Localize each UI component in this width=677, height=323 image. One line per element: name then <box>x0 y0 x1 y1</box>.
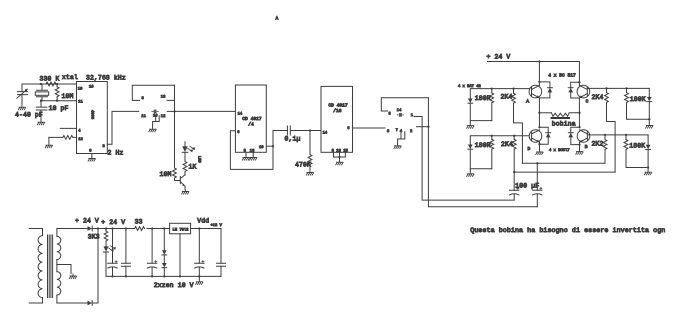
wire: gate2 pin5 loop to right vertical <box>381 98 428 111</box>
svg-text:+ 24 V: + 24 V <box>487 53 511 60</box>
svg-text:2K4: 2K4 <box>592 94 604 101</box>
wire: B emitter to ground <box>579 142 581 149</box>
wire: 24V rail to regulator <box>98 228 170 230</box>
svg-text:33: 33 <box>135 218 143 225</box>
capacitor film (Vdd) <box>217 229 226 277</box>
wire: IC2 pin8 stub to ground <box>245 152 247 155</box>
pin 4 stub (reset) <box>60 127 76 129</box>
resistor 10M (driver base) <box>173 168 181 181</box>
wire: gate2 pin2 stub <box>417 126 429 128</box>
resistor 3K3 <box>104 229 108 242</box>
svg-text:CD 4017: CD 4017 <box>242 116 262 122</box>
svg-text:10: 10 <box>259 146 264 150</box>
svg-text:2: 2 <box>410 130 413 134</box>
node B collector/diode <box>578 126 580 128</box>
ground (470K) <box>306 170 313 175</box>
wire: diode to +24V node <box>92 228 98 230</box>
svg-text:C: C <box>586 98 589 104</box>
node A base/2K4 <box>512 87 514 89</box>
node pin2 junction <box>427 126 429 128</box>
wire: gate1 gnd bracket <box>153 116 160 127</box>
node +24V <box>97 227 99 229</box>
node Vdd cap top <box>198 227 200 229</box>
svg-text:32,768 kHz: 32,768 kHz <box>86 74 126 81</box>
resistor 2K4 (D row series) <box>512 136 516 190</box>
ground (psu 0V) <box>196 280 203 285</box>
wire: A emitter to coil node <box>538 98 540 127</box>
wire: oscillator top rail to IC1 pin10 <box>22 83 77 85</box>
svg-text:16: 16 <box>89 86 94 90</box>
svg-text:4060: 4060 <box>89 110 93 120</box>
wire: D emitter to ground <box>539 142 541 149</box>
wire: bottom diode up to +24V node <box>92 229 98 304</box>
wire: IC2 pin6 feedback from pin10 <box>230 131 273 170</box>
svg-text:6: 6 <box>237 131 240 135</box>
ground (A-row) <box>467 123 474 128</box>
node B emitter/diode <box>578 143 580 145</box>
resistor 470K <box>308 131 312 171</box>
node rail/A collector <box>538 60 540 62</box>
svg-text:2K4: 2K4 <box>501 93 513 100</box>
node: 10M top junction <box>56 83 58 85</box>
svg-text:10: 10 <box>78 87 83 91</box>
node coil left <box>538 112 540 114</box>
node D emitter/diode <box>538 143 540 145</box>
node cap3 top <box>151 227 153 229</box>
svg-text:4-40 pF: 4-40 pF <box>15 112 43 119</box>
svg-text:13: 13 <box>161 96 166 100</box>
capacitor 100uF (cap1) <box>510 187 519 200</box>
ground (center tap) <box>69 274 76 279</box>
svg-text:Vdd: Vdd <box>197 218 209 225</box>
ground (B emitter) <box>576 149 583 154</box>
diode (flyback A) <box>539 82 552 98</box>
node D base/2K4 <box>513 135 515 137</box>
node cap1 top <box>111 227 113 229</box>
transformer secondary bottom winding <box>56 265 58 272</box>
svg-text:A: A <box>526 98 529 104</box>
svg-text:180K: 180K <box>629 143 645 150</box>
node C collector/diode <box>578 81 580 83</box>
node: 10M bottom <box>56 100 58 102</box>
resistor 180R (A row) <box>490 89 494 121</box>
svg-text:13: 13 <box>336 150 341 154</box>
transistor A <box>529 85 542 98</box>
svg-text:1: 1 <box>411 114 414 118</box>
svg-text:3K3: 3K3 <box>88 234 100 241</box>
resistor 180K (B row) <box>624 135 648 168</box>
node bracket junction <box>338 156 340 158</box>
capacitor 100uF (cap2) <box>533 163 542 207</box>
node D base/180R <box>491 135 493 137</box>
node cap output junction <box>309 129 311 131</box>
ground (IC2 pin13) <box>250 155 257 160</box>
resistor 10M (crystal parallel) <box>55 84 59 101</box>
wire: secondary bottom to diode <box>57 302 88 304</box>
node: crystal top junction <box>40 83 42 85</box>
svg-text:5: 5 <box>389 113 392 117</box>
wire: D base <box>471 135 529 137</box>
svg-text:11: 11 <box>141 115 146 119</box>
svg-text:7: 7 <box>396 129 398 133</box>
svg-text:B: B <box>585 144 588 150</box>
capacitor film (24V #2) <box>121 229 130 277</box>
transformer T1 <box>29 229 61 304</box>
svg-text:3: 3 <box>103 145 106 149</box>
transistor Q1 <box>180 175 185 190</box>
wire: +24V rail <box>488 62 580 86</box>
capacitor elec (Vdd) <box>195 229 204 277</box>
svg-text:2xzen 10 V: 2xzen 10 V <box>154 282 194 289</box>
svg-text:14: 14 <box>323 131 328 135</box>
svg-text:180K: 180K <box>630 96 646 103</box>
svg-text:10M: 10M <box>62 93 74 100</box>
wire: regulator output rail <box>191 228 221 230</box>
svg-text:2K4: 2K4 <box>501 141 513 148</box>
svg-text:2 Hz: 2 Hz <box>108 149 124 156</box>
trimmer capacitor CV 4-40 pF <box>17 84 28 105</box>
diode rectifier bottom <box>88 301 93 306</box>
svg-text:/4: /4 <box>248 121 254 127</box>
svg-text:CD 4017: CD 4017 <box>328 103 348 109</box>
svg-text:xtal: xtal <box>62 74 78 81</box>
node pin10 junction <box>272 145 274 147</box>
svg-text:LM 78l2: LM 78l2 <box>173 227 190 232</box>
svg-text:/16: /16 <box>333 108 342 114</box>
zener diodes 2x 10V <box>162 229 167 277</box>
wire: IC1 pin8 to ground <box>91 154 93 157</box>
diode BAT42 (B row) <box>646 135 651 170</box>
svg-text:3: 3 <box>387 130 390 134</box>
node cap1 top tap <box>513 171 515 173</box>
svg-text:+ 24 V: + 24 V <box>75 218 99 225</box>
resistor 2K4 (C row series) <box>605 88 616 172</box>
resistor 33 (series) <box>135 227 145 231</box>
transformer primary winding <box>29 229 42 236</box>
wire: IC3 pin6 to gate2 pin3 <box>353 127 386 129</box>
transformer secondary top winding <box>56 229 58 237</box>
svg-text:12: 12 <box>78 138 83 142</box>
node B-row diode/180K <box>647 166 649 168</box>
wire: bottom rail ground stub <box>198 276 200 279</box>
ground (gate2) <box>394 144 401 149</box>
node A collector/diode <box>538 81 540 83</box>
node gate1 output junction <box>173 110 175 112</box>
wire: B base <box>588 134 648 136</box>
wire: A-row diode node to 180R <box>470 121 492 124</box>
ground (IC1 pin 8) <box>88 156 95 161</box>
op IC1 4060 body <box>77 82 108 154</box>
resistor on pin 12 <box>49 136 77 140</box>
LED power indicator <box>103 241 115 276</box>
svg-text:4 x BAT 42: 4 x BAT 42 <box>458 85 482 89</box>
wire: gate2 gnd bracket <box>398 132 405 144</box>
wire: crystal bottom rail to IC1 pin11 <box>41 100 77 102</box>
svg-text:+12 V: +12 V <box>211 224 223 228</box>
node cap2 top <box>125 227 127 229</box>
wire: C base <box>588 87 650 89</box>
op IC3 CD4017 /16 body <box>321 86 353 152</box>
wire: IC2 pin10 stub <box>266 145 273 147</box>
diode (flyback B) <box>568 127 579 144</box>
crystal XTAL 32,768 kHz <box>35 84 48 101</box>
inductor bobina <box>551 113 580 119</box>
svg-text:14: 14 <box>397 109 402 113</box>
ground (IC3) <box>336 160 343 165</box>
svg-text:0,1µ: 0,1µ <box>285 136 301 143</box>
svg-text:A: A <box>276 16 279 22</box>
transformer core <box>48 235 53 298</box>
diode BAT42 (D row) <box>468 136 473 169</box>
svg-text:Questa bobina ha bisogno di es: Questa bobina ha bisogno di essere inver… <box>470 227 665 235</box>
ground (pin 12 network) <box>45 143 52 148</box>
svg-text:12: 12 <box>161 115 166 119</box>
svg-text:4 x BC 517: 4 x BC 517 <box>548 72 576 78</box>
svg-text:bobina: bobina <box>552 121 576 128</box>
transistor D <box>529 130 542 143</box>
transistor B <box>577 130 590 143</box>
node bottom rail joints <box>111 275 113 277</box>
svg-text:4 x BC5l7: 4 x BC5l7 <box>549 148 570 153</box>
svg-text:6: 6 <box>347 127 350 131</box>
svg-text:180R: 180R <box>475 142 491 149</box>
diode rectifier top <box>88 226 93 231</box>
wire: A base <box>471 88 529 90</box>
resistor 180K (C row) <box>625 88 650 119</box>
svg-text:15: 15 <box>343 150 348 154</box>
wire: gate1 pin8 to pin13 loop <box>132 85 174 100</box>
svg-text:10 pF: 10 pF <box>49 105 69 112</box>
node 3K3 top <box>105 227 107 229</box>
resistor 2K2 (B row series) <box>603 135 607 163</box>
diode BAT42 (C row) <box>647 88 652 123</box>
svg-text:470K: 470K <box>295 161 311 168</box>
svg-text:LED: LED <box>196 156 200 164</box>
ground (gate1) <box>149 127 156 132</box>
diode BAT42 (A row) <box>468 89 473 121</box>
wire: gate1 right vertical down <box>174 85 176 168</box>
svg-text:D: D <box>528 146 531 152</box>
svg-text:+ 24 V: + 24 V <box>101 219 125 226</box>
svg-text:330 K: 330 K <box>40 76 60 83</box>
capacitor 0,1u <box>287 126 310 135</box>
wire: IC3 ground bracket <box>334 152 346 160</box>
wire: IC2 pin13 stub to ground <box>252 152 254 155</box>
svg-text:180R: 180R <box>475 95 491 102</box>
node A base/180R <box>491 87 493 89</box>
svg-text:2K2: 2K2 <box>592 140 604 147</box>
wire: C emitter down <box>578 98 580 127</box>
node C base/2K4 <box>605 87 607 89</box>
op regulator LM78l2 <box>170 223 191 234</box>
svg-text:100 µF: 100 µF <box>515 182 539 189</box>
wire: D-row diode node <box>470 169 492 172</box>
ground (C-row) <box>646 123 653 128</box>
op-amp gate U2B (4093 tiny glyph) <box>397 113 403 117</box>
resistor 2K4 (A row series) <box>512 89 523 164</box>
svg-text:1K: 1K <box>189 163 197 170</box>
wire: gate1 pin12 output to counter clock (long) <box>167 110 235 112</box>
wire: regulator ground pin <box>179 234 181 277</box>
wire: gate2 pin1 drive down (to cap1) <box>414 117 514 201</box>
svg-text:4: 4 <box>78 130 81 134</box>
resistor 180R (D row) <box>490 136 494 169</box>
resistor 330 K <box>46 82 56 86</box>
transistor C <box>577 85 590 98</box>
wire: gate2 right vertical (to bridge drive) <box>428 98 537 207</box>
wire: pin10 up to coupling cap <box>273 131 287 147</box>
wire: coil top node <box>539 112 551 114</box>
svg-text:8: 8 <box>142 97 145 101</box>
ground (trimmer) <box>18 105 25 110</box>
svg-text:14: 14 <box>238 112 243 116</box>
node: crystal bottom <box>40 100 42 102</box>
LED D1 <box>182 142 195 153</box>
wire: drive net D+C <box>514 171 615 173</box>
node C-row diode/180K <box>648 118 650 120</box>
node D collector/diode <box>538 126 540 128</box>
ground (D emitter) <box>536 150 543 155</box>
capacitor 10 pF <box>36 101 47 120</box>
node B base/180K <box>625 134 627 136</box>
op-amp gate U2A (4093 tiny glyph) <box>152 110 158 114</box>
wire: IC1 pin3 to gate1 pin11 <box>107 111 138 144</box>
wire: center tap <box>57 265 71 274</box>
svg-text:13: 13 <box>250 150 255 154</box>
node C base/180K <box>625 87 627 89</box>
wire: pin12 resistor to ground <box>48 137 50 143</box>
wire: secondary top to diode <box>57 228 88 230</box>
ground (B-row) <box>644 170 651 175</box>
capacitor elec (reg input) <box>147 229 156 277</box>
diode (flyback C) <box>568 82 579 98</box>
capacitor elec (24V #1) <box>108 229 117 277</box>
op IC2 CD4017 /4 body <box>235 85 266 152</box>
node B base/2K2 <box>604 134 606 136</box>
wire: A collector drop <box>538 62 540 86</box>
wire: drive net A+B <box>522 162 605 164</box>
resistor 1K <box>183 152 187 175</box>
svg-text:10M: 10M <box>160 171 172 178</box>
ground (10 pF) <box>37 120 44 125</box>
wire: psu bottom rail <box>106 275 221 277</box>
svg-text:11: 11 <box>78 101 83 105</box>
ground (D-row) <box>467 172 474 177</box>
ground (driver emitter) <box>182 189 189 194</box>
wire: cap to IC3 pin14 <box>310 130 321 132</box>
node coil right <box>578 112 580 114</box>
diode (flyback D) <box>540 127 551 144</box>
ground (IC2 pin8) <box>242 155 249 160</box>
node zener top <box>163 227 165 229</box>
node cap2 top tap <box>536 162 538 164</box>
